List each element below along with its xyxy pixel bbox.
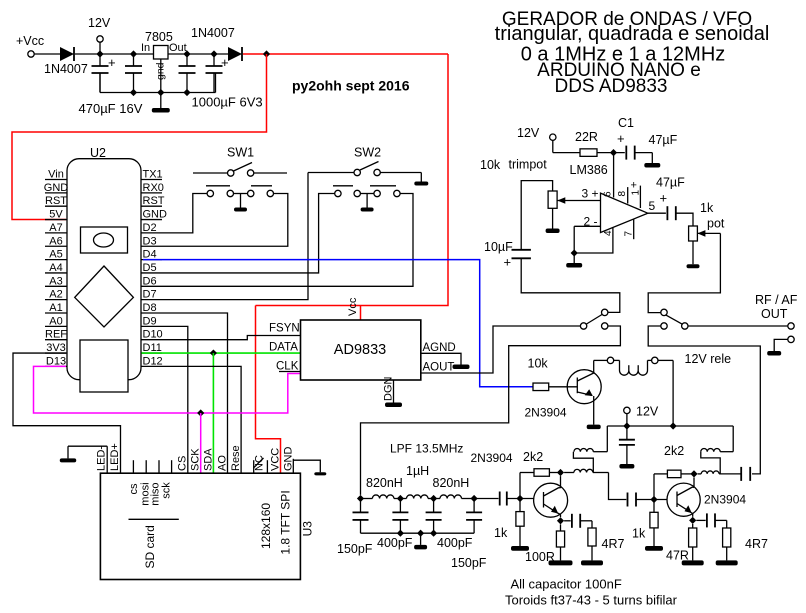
svg-text:Vcc: Vcc <box>347 297 359 316</box>
svg-text:+: + <box>221 55 229 70</box>
capacitor C1 47uF <box>626 146 634 160</box>
capacitor 470uF plus <box>92 54 116 93</box>
title line 4 <box>537 60 701 81</box>
junction Q2 collector <box>557 469 564 476</box>
svg-text:CS: CS <box>177 456 189 471</box>
svg-text:trimpot: trimpot <box>509 158 548 172</box>
ground SW2 <box>361 194 374 212</box>
wire D11 green DATA <box>142 352 301 354</box>
capacitor 12V decoupling <box>619 426 635 469</box>
title line 2 <box>495 23 770 45</box>
pin LED+ stub <box>109 443 121 471</box>
wire Q1 collector <box>593 360 595 373</box>
wire N4 to cap <box>474 498 498 500</box>
capacitor 150pF first <box>337 499 373 557</box>
svg-text:A2: A2 <box>49 289 62 301</box>
svg-text:RST: RST <box>143 195 165 207</box>
svg-text:+: + <box>108 55 116 70</box>
mcu U2 arduino nano body <box>67 159 141 380</box>
regulator U1 7805 <box>141 30 187 59</box>
pins TFT unlabeled stubs <box>133 460 253 473</box>
label cs inner <box>128 483 140 495</box>
pin VCC label <box>269 448 281 471</box>
svg-text:TX1: TX1 <box>143 169 163 181</box>
svg-text:SCK: SCK <box>190 448 202 471</box>
opamp U4 LM386 triangle <box>601 193 648 232</box>
ground supply rail <box>152 93 170 113</box>
pin 1 lm386 <box>631 180 642 209</box>
svg-text:2k2: 2k2 <box>664 444 684 458</box>
wire 22R to junction <box>597 152 625 154</box>
ground trimpot <box>546 208 560 233</box>
label 1000uF 6V3 <box>192 95 263 110</box>
pin 6 lm386 <box>603 153 614 198</box>
svg-text:py2ohh sept 2016: py2ohh sept 2016 <box>292 78 410 94</box>
ground LPF <box>414 533 427 549</box>
svg-text:SDA: SDA <box>202 448 214 471</box>
wire red right vertical to AD9833 rail <box>256 54 449 306</box>
svg-text:D2: D2 <box>143 222 157 234</box>
label 2N3904 s2 <box>704 493 746 507</box>
pin AOUT label <box>423 362 455 374</box>
mcu U2 crystal block <box>81 227 128 253</box>
svg-text:D10: D10 <box>143 329 163 341</box>
ground pot 1k <box>687 241 700 268</box>
wire D7 to SW2 top <box>162 173 308 300</box>
node LPF N3 <box>430 495 437 502</box>
wire 10k to Q1 base <box>549 386 578 388</box>
capacitor s2 output <box>741 467 750 481</box>
svg-text:128x160: 128x160 <box>259 503 273 549</box>
junction green SDA <box>210 349 217 356</box>
label SW2 <box>354 146 381 160</box>
svg-text:sck: sck <box>161 482 173 499</box>
relay left contact NO <box>602 309 608 315</box>
capacitor C2 100nF <box>125 54 142 93</box>
junction Q3 base <box>650 496 657 503</box>
label miso inner <box>150 482 162 505</box>
wire Q3 collector up <box>693 478 695 488</box>
svg-text:FSYN: FSYN <box>269 323 300 335</box>
svg-text:3 +: 3 + <box>582 187 599 201</box>
wire D13 magenta <box>34 366 301 413</box>
pin Rese label <box>230 445 242 471</box>
node LPF N1 <box>357 495 364 502</box>
svg-text:AGND: AGND <box>423 342 456 354</box>
junction cap4 <box>210 50 217 57</box>
svg-text:1k: 1k <box>632 527 646 541</box>
svg-text:4: 4 <box>603 230 614 236</box>
svg-text:DGN: DGN <box>383 377 395 402</box>
junction rail coil <box>670 422 677 429</box>
wire +Vcc to D1 <box>34 53 60 55</box>
title line 3 <box>521 44 726 66</box>
wire D5 to SW2 <box>162 194 335 273</box>
wire coil left to Q1 collector <box>594 359 608 361</box>
svg-text:12V: 12V <box>636 405 659 419</box>
svg-text:12V: 12V <box>88 16 111 30</box>
svg-text:47R: 47R <box>666 549 689 563</box>
pin 4 lm386 <box>574 228 614 253</box>
wire Q2 emitter down <box>558 513 561 517</box>
svg-text:triangular, quadrada e senoida: triangular, quadrada e senoidal <box>495 23 770 45</box>
svg-text:+: + <box>504 255 512 270</box>
resistor 2k2 s2 <box>654 444 694 478</box>
junction rail gnd tap <box>417 530 424 537</box>
junction LM386 supply <box>610 149 617 156</box>
svg-text:RX0: RX0 <box>143 182 164 194</box>
svg-text:A3: A3 <box>49 275 62 287</box>
transistor Q1 2N3904 <box>567 370 601 404</box>
wire Q3 base junction up <box>653 474 655 500</box>
svg-text:8: 8 <box>617 191 628 197</box>
wire SW2 center link <box>360 193 374 195</box>
wire D8 to TFT AO <box>162 313 228 473</box>
label 10k trimpot <box>480 158 547 173</box>
junction Q3 emitter <box>689 517 696 524</box>
svg-text:AO: AO <box>217 455 229 471</box>
wire TFT GND to ground <box>293 460 326 475</box>
svg-text:4R7: 4R7 <box>745 537 768 551</box>
label Vcc rotated <box>347 297 359 316</box>
svg-text:In: In <box>141 42 150 54</box>
switch SW1 top lever <box>193 163 287 177</box>
relay left lever <box>587 315 603 325</box>
wire D10 to AD9833 FSYN <box>162 336 301 340</box>
pin 2 wire <box>574 215 600 229</box>
svg-text:1N4007: 1N4007 <box>191 26 235 40</box>
svg-text:LPF 13.5MHz: LPF 13.5MHz <box>390 442 463 456</box>
wire cap to base junction <box>507 498 534 500</box>
svg-text:SD card: SD card <box>143 525 157 568</box>
svg-text:Rese: Rese <box>230 445 242 471</box>
svg-text:470µF 16V: 470µF 16V <box>79 101 143 116</box>
mcu U2 chip diamond <box>75 266 134 327</box>
relay right lever <box>666 315 683 325</box>
svg-text:3V3: 3V3 <box>46 342 66 354</box>
label mosi inner <box>139 482 151 505</box>
wire LPF bottom rail <box>361 532 475 534</box>
svg-text:2N3904: 2N3904 <box>471 451 513 465</box>
wire 7805 Out to diode D2 <box>168 53 228 55</box>
wire relay right NC to amp <box>648 326 760 474</box>
svg-text:A1: A1 <box>49 302 62 314</box>
label LM386 <box>570 163 608 177</box>
pin DATA label <box>269 342 298 354</box>
node +Vcc input terminal <box>16 34 44 57</box>
label 2N3904 s1 <box>471 451 513 465</box>
junction Q3 collector <box>690 470 697 477</box>
svg-text:4R7: 4R7 <box>602 537 625 551</box>
label U3 rotated <box>301 521 315 537</box>
junction rail cap2 <box>130 89 137 96</box>
relay right contact common <box>682 323 688 329</box>
svg-text:D7: D7 <box>143 289 157 301</box>
junction at 12V/cap1 <box>96 50 103 57</box>
capacitor 47uF output <box>667 206 675 220</box>
svg-text:7: 7 <box>624 231 635 237</box>
resistor 1k s2 <box>632 500 663 551</box>
svg-text:1k: 1k <box>700 201 714 215</box>
junction red at x267 <box>263 50 270 57</box>
switch SW2 contacts <box>335 190 400 196</box>
svg-text:All capacitor 100nF: All capacitor 100nF <box>511 577 622 592</box>
tft U3 box <box>100 473 300 579</box>
svg-text:Vin: Vin <box>48 169 64 181</box>
svg-text:D5: D5 <box>143 262 157 274</box>
resistor 2k2 s1 <box>520 450 561 476</box>
wire pin2 down <box>573 226 575 253</box>
capacitor s1 emitter out <box>564 514 592 528</box>
capacitor 1000uF plus <box>206 54 229 93</box>
resistor 10k relay <box>528 356 549 390</box>
note all capacitor <box>511 577 622 592</box>
svg-text:10k: 10k <box>528 356 549 370</box>
svg-text:D13: D13 <box>46 355 66 367</box>
node 12V LM386 terminal <box>517 126 580 153</box>
svg-text:D6: D6 <box>143 275 157 287</box>
pin 3 wire with arrow <box>557 187 600 204</box>
svg-text:150pF: 150pF <box>337 542 373 556</box>
wire SW1 center link <box>234 193 248 195</box>
wire cap to Q3 base junction <box>636 499 667 501</box>
label DGN rotated <box>383 377 395 402</box>
svg-text:1N4007: 1N4007 <box>44 62 88 76</box>
svg-text:U2: U2 <box>90 146 106 160</box>
svg-text:SW2: SW2 <box>354 146 381 160</box>
label py2ohh sept 2016 <box>292 78 410 94</box>
junction Q2 base <box>516 495 523 502</box>
svg-text:LED-: LED- <box>96 446 108 471</box>
svg-text:12V: 12V <box>517 126 540 140</box>
svg-text:47µF: 47µF <box>656 176 685 190</box>
node LPF N4 <box>471 495 478 502</box>
svg-text:U3: U3 <box>301 521 315 537</box>
svg-text:+Vcc: +Vcc <box>16 34 44 48</box>
wire Q3 emitter down <box>691 513 693 517</box>
dds U3 AD9833 box <box>301 320 421 380</box>
svg-text:100R: 100R <box>525 550 555 564</box>
wire D1 to 7805 In <box>75 53 153 55</box>
svg-text:GND: GND <box>44 182 69 194</box>
inductor 820nH first <box>361 476 403 499</box>
svg-text:A7: A7 <box>49 222 62 234</box>
svg-text:5: 5 <box>649 199 656 213</box>
transistor Q3 2N3904 <box>667 483 700 516</box>
capacitor coupling s1 in <box>500 492 507 506</box>
svg-text:D8: D8 <box>143 302 157 314</box>
svg-text:1.8 TFT SPI: 1.8 TFT SPI <box>279 490 293 554</box>
switch SW1 contacts <box>207 190 273 196</box>
junction cap2 <box>130 50 137 57</box>
label 470uF 16V <box>79 101 143 116</box>
label U2 <box>90 146 106 160</box>
relay left contact common <box>580 323 586 329</box>
note toroids <box>505 593 678 608</box>
svg-text:D9: D9 <box>143 315 157 327</box>
wire red down-left loop to 5V pin <box>12 54 267 220</box>
pin 8 lm386 <box>617 187 628 203</box>
capacitor 400pF first <box>377 499 413 551</box>
label 2N3904 Q1 <box>525 406 567 420</box>
wire D12 to TFT Rese <box>162 366 241 473</box>
svg-text:1k: 1k <box>494 526 508 540</box>
wire red Vcc stub to AD9833 <box>360 306 362 321</box>
wire D2 to SW1 <box>162 194 207 233</box>
pin AO label <box>217 455 229 471</box>
title line 5 <box>554 76 667 97</box>
svg-text:150pF: 150pF <box>451 556 487 570</box>
svg-text:NC: NC <box>254 455 266 471</box>
svg-text:GND: GND <box>143 209 168 221</box>
mcu U2 usb connector <box>80 340 128 392</box>
capacitor 400pF second <box>426 499 473 551</box>
junction cap3 <box>183 50 190 57</box>
svg-text:2 -: 2 - <box>584 215 598 229</box>
junction rail cap3 <box>183 89 190 96</box>
wire 7805 gnd stub <box>160 59 162 93</box>
ground Q1 emitter <box>587 396 601 429</box>
svg-text:1µH: 1µH <box>406 464 429 478</box>
junction rail 12V terminal <box>623 422 630 429</box>
line SD separator <box>129 518 179 520</box>
pin FSYN label <box>269 323 300 335</box>
wire supply bottom rail <box>100 73 216 93</box>
inductor 1uH <box>400 464 433 499</box>
wire Q2 collector up <box>559 476 561 488</box>
wire D6 to SW2 <box>162 194 413 287</box>
label gnd rotated on 7805 <box>155 62 167 80</box>
wire AGND to ground <box>421 353 470 369</box>
switch SW1 pole2 bar <box>251 185 272 187</box>
capacitor 150pF second <box>451 499 487 571</box>
wire base junction up <box>519 473 521 499</box>
svg-text:LM386: LM386 <box>570 163 608 177</box>
junction Q2 emitter <box>557 517 564 524</box>
label 47uF C1 <box>649 133 678 147</box>
transistor Q2 2N3904 <box>534 483 568 517</box>
svg-text:12V rele: 12V rele <box>685 352 732 366</box>
capacitor 10uF <box>484 240 531 270</box>
wire relay left NC to LPF <box>361 326 621 495</box>
label LPF 13.5MHz <box>390 442 463 456</box>
svg-text:5V: 5V <box>49 209 63 221</box>
svg-text:RF / AF: RF / AF <box>755 293 798 307</box>
label C1 <box>617 116 634 146</box>
wire wiper to relay right <box>648 233 720 312</box>
diode D1 1N4007 <box>60 47 74 61</box>
pot 1k <box>689 201 725 241</box>
pins U2 right column labels <box>141 169 167 368</box>
resistor 22R <box>575 130 598 156</box>
resistor 4R7 s2 <box>716 520 768 565</box>
svg-text:47µF: 47µF <box>649 133 678 147</box>
svg-text:400pF: 400pF <box>437 536 473 550</box>
label 1N4007 for D1 <box>44 62 88 76</box>
svg-text:+: + <box>660 191 668 206</box>
node 12V supply terminal <box>88 16 111 54</box>
svg-text:D4: D4 <box>143 249 157 261</box>
ground SW1 <box>234 194 247 212</box>
label 128x160 inner <box>259 503 273 549</box>
wire magenta down to TFT SCK <box>200 413 202 473</box>
switch SW2 pole2 bar <box>370 185 396 187</box>
wire red main from D2 to right <box>243 53 448 55</box>
svg-text:pot: pot <box>707 217 725 231</box>
wire D3 to SW1 <box>162 194 288 247</box>
wire D4 blue to 10k <box>143 260 533 387</box>
pin SCK label <box>190 448 202 471</box>
diode D2 1N4007 <box>228 47 242 61</box>
choke s2 to 12V <box>701 426 733 474</box>
wire D9 to TFT CS <box>162 326 188 473</box>
ground pin2 <box>566 253 582 268</box>
svg-text:Out: Out <box>169 42 187 54</box>
wire 3V3 to TFT LED+ <box>13 353 121 473</box>
ground LED- <box>60 446 107 462</box>
svg-text:Toroids ft37-43 - 5 turns bifi: Toroids ft37-43 - 5 turns bifilar <box>505 593 678 608</box>
ground SW2 top right <box>414 173 428 186</box>
node LPF N2 <box>397 495 404 502</box>
node 12V bottom terminal <box>624 405 659 427</box>
pin CS label <box>177 456 189 471</box>
junction rail gnd <box>157 89 164 96</box>
svg-text:10k: 10k <box>480 158 501 172</box>
svg-text:A6: A6 <box>49 235 62 247</box>
switch SW2 pole1 bar <box>333 185 353 187</box>
label SW1 <box>227 146 254 160</box>
svg-text:AD9833: AD9833 <box>334 342 386 358</box>
capacitor coupling s2 in <box>628 493 637 507</box>
svg-text:400pF: 400pF <box>377 536 413 550</box>
svg-text:C1: C1 <box>618 116 634 130</box>
svg-text:1000µF 6V3: 1000µF 6V3 <box>192 95 263 110</box>
inductor s1 output <box>564 469 608 472</box>
wire cap to pot <box>676 213 693 226</box>
svg-text:22R: 22R <box>575 130 598 144</box>
capacitor C3 100nF <box>179 54 196 93</box>
pins U2 left column labels <box>44 169 69 368</box>
svg-text:OUT: OUT <box>761 307 788 321</box>
svg-text:+: + <box>631 180 637 192</box>
pin GND label <box>283 447 295 474</box>
relay right contact NO <box>661 309 667 315</box>
wire relay right common to OUT <box>688 325 788 327</box>
wire trimpot top <box>521 181 552 250</box>
resistor 4R7 s1 <box>581 521 624 566</box>
svg-text:CLK: CLK <box>276 361 299 373</box>
label 12V rele <box>685 352 732 366</box>
wire pot wiper <box>697 230 720 237</box>
svg-text:D12: D12 <box>143 355 163 367</box>
wire C1 to ground <box>635 153 661 168</box>
svg-text:+: + <box>617 131 625 146</box>
wire green down to TFT SDA <box>212 353 214 473</box>
svg-text:DDS AD9833: DDS AD9833 <box>554 76 667 97</box>
trimpot 10k <box>548 191 557 208</box>
wire red down to TFT VCC <box>256 306 281 474</box>
switch SW1 pole1 bar <box>206 185 230 187</box>
svg-text:2N3904: 2N3904 <box>525 406 567 420</box>
svg-text:A4: A4 <box>49 262 62 274</box>
relay right contact NC <box>661 323 667 329</box>
junction pin2 gnd <box>571 249 578 256</box>
inductor s2 output <box>698 471 742 474</box>
pin 5 output wire <box>648 199 666 213</box>
wire 12V rail <box>607 425 733 427</box>
svg-text:2N3904: 2N3904 <box>704 493 746 507</box>
svg-text:820nH: 820nH <box>433 476 470 490</box>
